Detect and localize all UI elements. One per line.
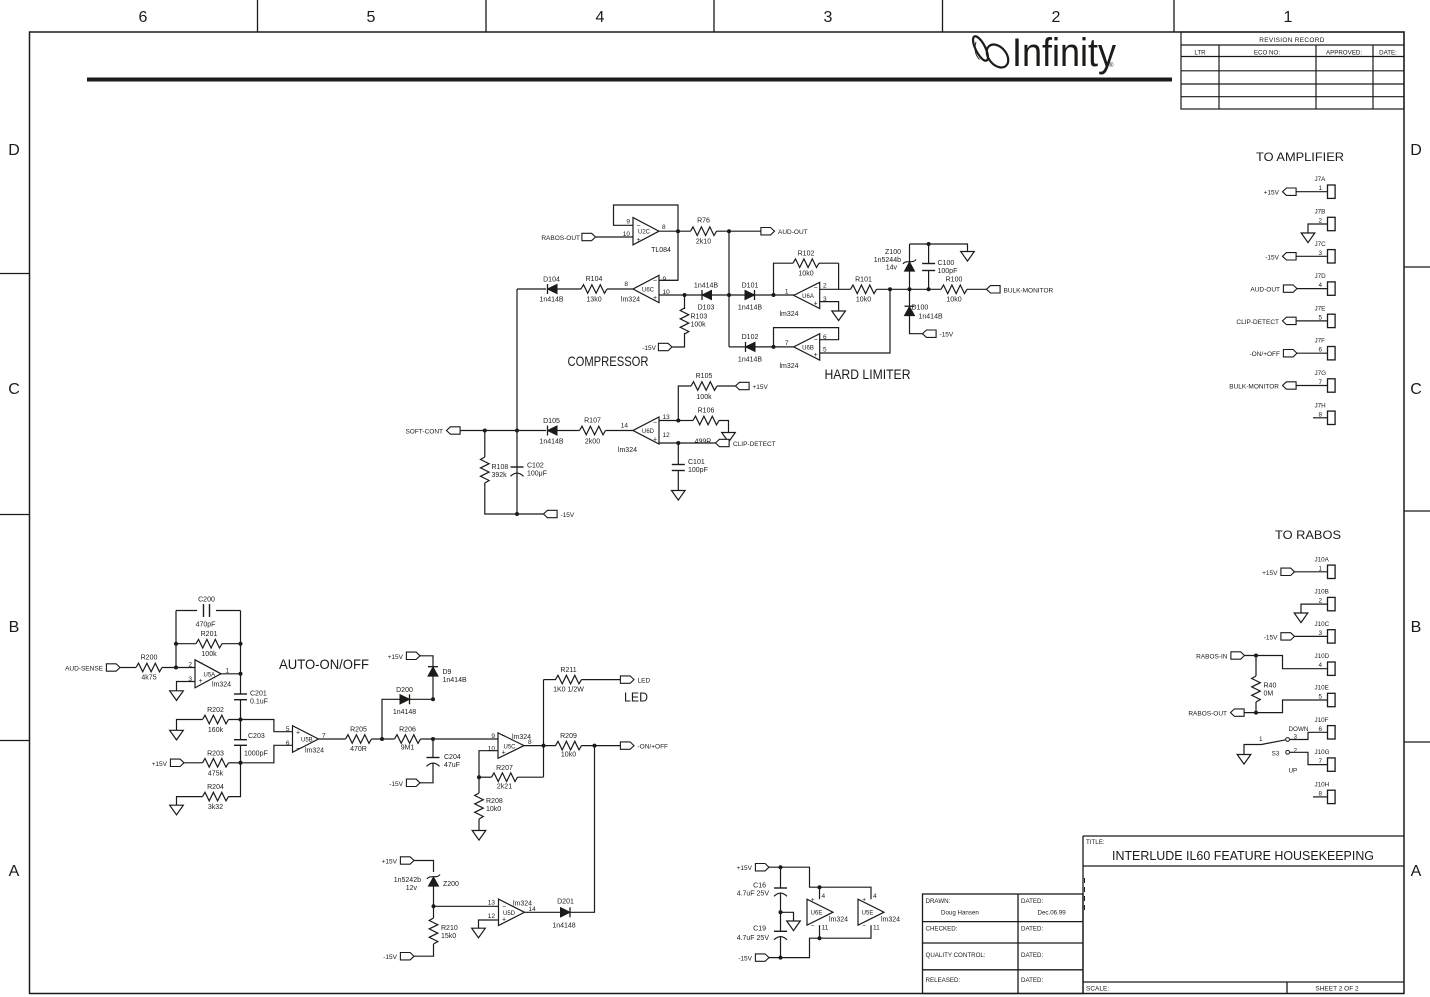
wire R211 to LED tag bbox=[582, 679, 621, 681]
svg-text:5: 5 bbox=[286, 726, 290, 733]
title block bbox=[1083, 836, 1404, 994]
wire J7C pin 3 bbox=[1296, 255, 1328, 257]
svg-text:R201: R201 bbox=[201, 631, 218, 638]
svg-text:1000pF: 1000pF bbox=[244, 751, 268, 758]
svg-text:2: 2 bbox=[1294, 748, 1298, 755]
svg-text:D105: D105 bbox=[543, 418, 560, 425]
resistor R200 bbox=[136, 663, 162, 672]
svg-text:100pF: 100pF bbox=[688, 467, 708, 474]
svg-text:470R: 470R bbox=[350, 746, 367, 753]
wire J10C pin 3 bbox=[1295, 635, 1328, 637]
resistor R203 bbox=[203, 759, 229, 768]
zener Z100 bbox=[909, 244, 911, 262]
connector J7B bbox=[1328, 217, 1336, 230]
net tag -15V at R103 bbox=[658, 343, 672, 350]
svg-text:+: + bbox=[502, 749, 506, 756]
resistor R101 bbox=[851, 285, 877, 294]
svg-text:DATED:: DATED: bbox=[1021, 926, 1044, 933]
ground at R204 bbox=[170, 805, 184, 815]
junction left rail / soft-cont bbox=[515, 429, 519, 433]
wire SOFT-CONT to D105 bbox=[460, 430, 546, 432]
svg-text:R202: R202 bbox=[207, 707, 224, 714]
svg-text:100k: 100k bbox=[201, 651, 217, 658]
wire J7G pin 7 bbox=[1296, 385, 1328, 387]
svg-text:DRAWN:: DRAWN: bbox=[926, 898, 951, 905]
switch S3 arm bbox=[1262, 740, 1286, 745]
svg-text:J7H: J7H bbox=[1315, 402, 1327, 409]
svg-text:A: A bbox=[9, 863, 20, 880]
wire J10F pin 6 to switch contact 3 bbox=[1290, 732, 1328, 739]
svg-text:−: − bbox=[502, 733, 506, 740]
net tag -ON/+OFF at J7F bbox=[1283, 350, 1297, 357]
wire D103 to D101 bbox=[712, 294, 746, 296]
svg-text:J7D: J7D bbox=[1315, 273, 1327, 280]
switch S3 contact 3 (DOWN) bbox=[1286, 738, 1290, 742]
svg-text:U6A: U6A bbox=[802, 294, 814, 300]
wire U2C node down to U6C pin 9 bbox=[659, 231, 678, 280]
svg-text:4: 4 bbox=[822, 893, 826, 900]
svg-text:U6D: U6D bbox=[642, 429, 655, 435]
svg-text:HARD LIMITER: HARD LIMITER bbox=[825, 366, 911, 382]
svg-text:J10G: J10G bbox=[1315, 749, 1330, 756]
wire pin13 node to R106 bbox=[678, 420, 693, 422]
capacitor C102 bbox=[511, 466, 524, 468]
wire U5A pin 3 to ground bbox=[177, 682, 196, 691]
svg-text:8: 8 bbox=[662, 224, 666, 231]
svg-text:COMPRESSOR: COMPRESSOR bbox=[568, 353, 649, 369]
svg-text:R76: R76 bbox=[697, 218, 710, 225]
svg-text:DOWN: DOWN bbox=[1289, 726, 1309, 733]
svg-text:5: 5 bbox=[823, 347, 827, 354]
net tag +15V at C16 bbox=[755, 864, 769, 871]
svg-text:+: + bbox=[637, 237, 641, 244]
wire D102 to U6B output bbox=[755, 346, 794, 348]
capacitor C19 bbox=[774, 930, 787, 932]
svg-text:R101: R101 bbox=[855, 277, 872, 284]
net tag LED bbox=[620, 676, 634, 683]
svg-text:7: 7 bbox=[785, 340, 789, 347]
svg-text:0.1uF: 0.1uF bbox=[250, 699, 268, 706]
junction R103 takeoff bbox=[683, 293, 687, 297]
net tag -15V at C19 bbox=[755, 954, 769, 961]
wire R101 to clamp node bbox=[877, 288, 942, 290]
svg-text:4: 4 bbox=[596, 9, 605, 26]
svg-text:Z100: Z100 bbox=[885, 249, 901, 256]
svg-text:R200: R200 bbox=[141, 655, 158, 662]
wire U5A output bbox=[221, 673, 241, 675]
diode D200 bbox=[400, 695, 410, 704]
svg-text:9: 9 bbox=[663, 276, 667, 283]
svg-text:J7E: J7E bbox=[1315, 305, 1326, 312]
ground at zener rail bbox=[961, 252, 975, 262]
capacitor C101 bbox=[677, 443, 679, 465]
wire +15V to Z200 bbox=[414, 861, 434, 873]
connector J10F bbox=[1328, 726, 1336, 739]
svg-text:-15V: -15V bbox=[383, 954, 397, 961]
connector J10D bbox=[1328, 662, 1336, 675]
svg-text:12v: 12v bbox=[406, 885, 418, 892]
svg-text:47uF: 47uF bbox=[444, 762, 460, 769]
svg-text:R106: R106 bbox=[698, 408, 715, 415]
ground at bypass midpoint bbox=[787, 921, 801, 931]
svg-text:2: 2 bbox=[823, 283, 827, 290]
svg-text:C19: C19 bbox=[753, 926, 766, 933]
svg-text:+: + bbox=[862, 897, 866, 904]
op-amp U6C bbox=[633, 275, 659, 302]
ground at J10B bbox=[1294, 613, 1308, 623]
svg-text:®: ® bbox=[1109, 62, 1114, 69]
svg-text:1n414B: 1n414B bbox=[443, 677, 467, 684]
svg-text:lm324: lm324 bbox=[779, 363, 798, 370]
junction at limiter vertical bbox=[727, 293, 731, 297]
net tag SOFT-CONT bbox=[447, 427, 461, 434]
svg-text:3: 3 bbox=[1294, 734, 1298, 741]
svg-text:1n414B: 1n414B bbox=[539, 439, 563, 446]
svg-text:100pF: 100pF bbox=[938, 268, 958, 275]
svg-text:0M: 0M bbox=[1264, 691, 1274, 698]
svg-text:10: 10 bbox=[488, 746, 496, 753]
wire U5C output bbox=[524, 745, 556, 747]
junction C101 takeoff bbox=[676, 441, 680, 445]
svg-text:AUD-OUT: AUD-OUT bbox=[778, 229, 808, 236]
svg-text:2k00: 2k00 bbox=[585, 439, 600, 446]
svg-text:TO AMPLIFIER: TO AMPLIFIER bbox=[1256, 152, 1344, 164]
wire R100 to BULK-MONITOR bbox=[967, 288, 987, 290]
svg-text:−: − bbox=[653, 420, 657, 427]
connector J7E bbox=[1328, 314, 1336, 327]
svg-text:11: 11 bbox=[873, 925, 880, 932]
svg-text:13k0: 13k0 bbox=[586, 297, 601, 304]
diode D103 bbox=[702, 290, 712, 299]
ground at R106 bbox=[722, 433, 736, 443]
svg-text:RABOS-IN: RABOS-IN bbox=[1196, 654, 1228, 661]
svg-text:DATE:: DATE: bbox=[1379, 50, 1397, 57]
wire U6A pin 2 to R101 bbox=[820, 288, 851, 290]
junction R40 top bbox=[1254, 654, 1258, 658]
svg-text:B: B bbox=[1411, 619, 1422, 636]
svg-text:Z200: Z200 bbox=[443, 881, 459, 888]
svg-text:+: + bbox=[811, 897, 815, 904]
wire R202 row to U5B pin 5 bbox=[229, 720, 293, 732]
svg-text:Doug Hansen: Doug Hansen bbox=[941, 910, 979, 917]
svg-text:D103: D103 bbox=[698, 305, 715, 312]
wire R207 row bbox=[479, 776, 492, 778]
svg-text:lm324: lm324 bbox=[779, 311, 798, 318]
wire J7D pin 4 bbox=[1297, 288, 1328, 290]
wire RABOS-IN to J10D pin 4 bbox=[1245, 656, 1328, 669]
resistor R208 bbox=[478, 777, 480, 793]
wire R203 to node bbox=[229, 762, 241, 764]
svg-text:1: 1 bbox=[1284, 9, 1293, 26]
junction U6E pin 11 bbox=[818, 936, 822, 940]
junction R208 node bbox=[477, 775, 481, 779]
svg-text:Infinity: Infinity bbox=[1012, 31, 1116, 75]
junction zener node bbox=[908, 287, 912, 291]
svg-text:6: 6 bbox=[139, 9, 148, 26]
svg-text:D104: D104 bbox=[543, 277, 560, 284]
wire U2C output to AUD-OUT bbox=[659, 230, 690, 232]
svg-text:RABOS-OUT: RABOS-OUT bbox=[1188, 711, 1227, 718]
svg-text:C204: C204 bbox=[444, 754, 461, 761]
svg-text:U5B: U5B bbox=[301, 738, 313, 744]
svg-text:J7G: J7G bbox=[1315, 370, 1327, 377]
resistor R105 bbox=[691, 382, 717, 391]
svg-text:lm324: lm324 bbox=[618, 447, 637, 454]
revision record table bbox=[1181, 32, 1404, 109]
net tag -15V at J10C bbox=[1281, 633, 1295, 640]
ground at C101 bbox=[672, 491, 686, 501]
junction D200 takeoff bbox=[380, 737, 384, 741]
svg-text:1n4148: 1n4148 bbox=[552, 923, 575, 930]
title block revision dashes bbox=[1084, 878, 1086, 910]
wire +15V to R203 bbox=[184, 762, 203, 764]
svg-text:D: D bbox=[1410, 142, 1422, 159]
svg-text:D: D bbox=[8, 142, 20, 159]
svg-text:LED: LED bbox=[638, 678, 651, 685]
wire J7H pin 8 stub bbox=[1313, 417, 1328, 419]
zener Z200 bbox=[429, 877, 439, 886]
svg-text:9: 9 bbox=[626, 219, 630, 226]
net tag -15V at J7C bbox=[1283, 253, 1297, 260]
junction C19 bottom bbox=[779, 956, 783, 960]
resistor R103 bbox=[684, 295, 686, 309]
junction D200 at main vertical bbox=[431, 697, 435, 701]
svg-text:9M1: 9M1 bbox=[401, 745, 415, 752]
svg-text:DATED:: DATED: bbox=[1021, 898, 1044, 905]
svg-text:LED: LED bbox=[624, 691, 648, 705]
diode D102 bbox=[746, 342, 756, 351]
junction C100 bottom bbox=[927, 287, 931, 291]
svg-text:C: C bbox=[1410, 381, 1422, 398]
wire AUD-OUT node down to limiter diodes bbox=[728, 231, 730, 347]
svg-text:J10B: J10B bbox=[1315, 589, 1329, 596]
svg-text:12: 12 bbox=[488, 913, 496, 920]
svg-text:U5A: U5A bbox=[204, 673, 216, 679]
wire R105 to +15V bbox=[717, 385, 736, 387]
svg-text:lm324: lm324 bbox=[212, 682, 231, 689]
resistor R104 bbox=[581, 285, 607, 294]
connector J10B bbox=[1328, 597, 1336, 610]
junction R108 takeoff bbox=[483, 429, 487, 433]
svg-text:B: B bbox=[9, 619, 20, 636]
junction U5A feedback input bbox=[174, 666, 178, 670]
connector J7H bbox=[1328, 411, 1336, 424]
connector J10C bbox=[1328, 630, 1336, 643]
junction U6E pin 4 bbox=[818, 885, 822, 889]
wire RABOS-OUT to U2C pin 10 bbox=[596, 236, 634, 238]
svg-text:-15V: -15V bbox=[642, 345, 656, 352]
svg-text:1n414B: 1n414B bbox=[694, 283, 718, 290]
svg-text:9: 9 bbox=[491, 733, 495, 740]
svg-text:C16: C16 bbox=[753, 883, 766, 890]
wire node to U5D pin 13 bbox=[434, 905, 499, 907]
wire D200 branch bbox=[382, 699, 400, 739]
svg-text:8: 8 bbox=[624, 281, 628, 288]
svg-text:U6E: U6E bbox=[811, 911, 823, 917]
resistor R106 bbox=[693, 416, 719, 425]
svg-text:6: 6 bbox=[286, 740, 290, 747]
svg-text:R206: R206 bbox=[399, 727, 416, 734]
svg-text:2: 2 bbox=[1052, 9, 1061, 26]
svg-text:SHEET 2 OF 2: SHEET 2 OF 2 bbox=[1315, 986, 1359, 993]
svg-text:R107: R107 bbox=[584, 418, 601, 425]
resistor R100 bbox=[941, 285, 967, 294]
svg-text:−: − bbox=[637, 223, 641, 230]
svg-text:TL084: TL084 bbox=[651, 247, 671, 254]
op-amp U6B bbox=[794, 334, 820, 360]
svg-text:4.7uF 25V: 4.7uF 25V bbox=[737, 935, 770, 942]
ground at S3 bbox=[1237, 755, 1251, 765]
svg-text:100μF: 100μF bbox=[527, 471, 547, 478]
svg-text:-15V: -15V bbox=[940, 332, 954, 339]
svg-text:10k0: 10k0 bbox=[946, 297, 961, 304]
svg-text:1n414B: 1n414B bbox=[738, 357, 762, 364]
capacitor C200 bbox=[203, 604, 205, 617]
net tag -15V at R210 bbox=[400, 953, 414, 960]
svg-text:R103: R103 bbox=[691, 314, 708, 321]
svg-text:+: + bbox=[502, 917, 506, 924]
svg-text:1K0 1/2W: 1K0 1/2W bbox=[553, 687, 584, 694]
wire R202 to ground bbox=[177, 720, 203, 731]
svg-text:−: − bbox=[811, 923, 815, 930]
svg-text:R104: R104 bbox=[586, 276, 603, 283]
Infinity logo swirl bbox=[970, 34, 1013, 71]
svg-text:+15V: +15V bbox=[753, 384, 769, 391]
connector J7A bbox=[1328, 185, 1336, 198]
diode D201 bbox=[561, 908, 571, 917]
svg-text:2: 2 bbox=[188, 662, 192, 669]
wire RABOS-OUT to J10E pin 5 bbox=[1244, 700, 1328, 713]
svg-text:J7C: J7C bbox=[1315, 241, 1327, 248]
diode D105 bbox=[548, 426, 558, 435]
svg-text:CLIP-DETECT: CLIP-DETECT bbox=[1236, 319, 1279, 326]
svg-text:AUD-OUT: AUD-OUT bbox=[1250, 287, 1280, 294]
svg-text:+15V: +15V bbox=[1264, 190, 1280, 197]
ground at U6A pin 3 bbox=[832, 311, 846, 321]
ground at R202 bbox=[170, 730, 184, 740]
junction C102 bottom bbox=[515, 512, 519, 516]
svg-text:R100: R100 bbox=[946, 277, 963, 284]
svg-text:J7B: J7B bbox=[1315, 209, 1326, 216]
resistor R76 bbox=[691, 227, 717, 236]
capacitor C16 bbox=[780, 867, 782, 888]
net tag RABOS-OUT bbox=[582, 233, 596, 240]
svg-text:RABOS-OUT: RABOS-OUT bbox=[541, 235, 580, 242]
op-amp U5E bbox=[858, 899, 884, 925]
wire U6C pin 10 to D103 bbox=[659, 294, 702, 296]
resistor R102 bbox=[793, 259, 819, 268]
ground at U5D pin 12 bbox=[472, 928, 486, 938]
svg-text:CLIP-DETECT: CLIP-DETECT bbox=[733, 441, 776, 448]
diode D101 bbox=[745, 290, 755, 299]
op-amp U5A bbox=[195, 660, 221, 688]
svg-text:QUALITY CONTROL:: QUALITY CONTROL: bbox=[926, 952, 986, 959]
net tag RABOS-OUT bbox=[1231, 709, 1245, 716]
svg-text:J10C: J10C bbox=[1315, 621, 1330, 628]
wire U6D pin 12 to CLIP-DETECT bbox=[659, 442, 716, 444]
svg-text:100k: 100k bbox=[696, 394, 712, 401]
resistor R108 bbox=[484, 431, 486, 458]
net tag CLIP-DETECT at J7E bbox=[1283, 317, 1297, 324]
svg-text:14v: 14v bbox=[886, 265, 898, 272]
svg-text:−: − bbox=[814, 337, 818, 344]
resistor R202 bbox=[203, 715, 229, 724]
svg-text:4.7uF 25V: 4.7uF 25V bbox=[737, 891, 770, 898]
svg-text:−: − bbox=[296, 746, 300, 753]
junction AUD-OUT branch bbox=[727, 229, 731, 233]
wire S3 common to ground bbox=[1244, 745, 1262, 755]
svg-text:R209: R209 bbox=[560, 733, 577, 740]
svg-text:J10A: J10A bbox=[1315, 556, 1330, 563]
svg-text:R105: R105 bbox=[696, 373, 713, 380]
svg-text:Dec.06.99: Dec.06.99 bbox=[1038, 910, 1067, 917]
junction R40 bottom bbox=[1254, 711, 1258, 715]
net tag AUD-OUT at J7D bbox=[1283, 285, 1297, 292]
capacitor C201 bbox=[234, 693, 247, 695]
op-amp U6E bbox=[807, 899, 833, 925]
wire R205 to R206 bbox=[372, 738, 395, 740]
wire R102 to feedback vertical bbox=[819, 262, 839, 264]
op-amp U2C bbox=[633, 218, 659, 245]
svg-text:ECO NO:: ECO NO: bbox=[1254, 50, 1280, 57]
net tag +15V at Z200 bbox=[400, 857, 414, 864]
junction R201 left bbox=[174, 642, 178, 646]
net tag +15V at R105 bbox=[736, 382, 750, 389]
resistor R205 bbox=[346, 735, 372, 744]
svg-text:D100: D100 bbox=[912, 305, 929, 312]
net tag BULK-MONITOR bbox=[987, 286, 1001, 293]
net tag +15V at J10A bbox=[1281, 568, 1295, 575]
svg-text:U6B: U6B bbox=[802, 346, 814, 352]
wire J7A pin 1 bbox=[1296, 191, 1328, 193]
op-amp U5D bbox=[499, 899, 525, 926]
svg-text:SCALE:: SCALE: bbox=[1086, 986, 1109, 993]
wire U6A feedback vertical right bbox=[838, 263, 840, 289]
net tag BULK-MONITOR at J7G bbox=[1283, 382, 1297, 389]
svg-text:10k0: 10k0 bbox=[798, 271, 813, 278]
svg-text:2k21: 2k21 bbox=[497, 784, 512, 791]
resistor R211 bbox=[556, 675, 582, 684]
resistor R209 bbox=[556, 741, 582, 750]
svg-text:S3: S3 bbox=[1272, 751, 1280, 758]
wire R201 row bbox=[176, 643, 196, 645]
svg-text:475k: 475k bbox=[208, 770, 224, 777]
wire C203 to R203 row bbox=[240, 745, 242, 763]
wire +15V to D9 bbox=[420, 656, 433, 667]
op-amp U6D bbox=[633, 417, 659, 444]
svg-text:+15V: +15V bbox=[737, 865, 753, 872]
svg-text:DATED:: DATED: bbox=[1021, 977, 1044, 984]
wire U6B feedback loop bbox=[774, 328, 839, 347]
junction R201 right bbox=[239, 642, 243, 646]
svg-text:499R: 499R bbox=[695, 439, 712, 446]
svg-text:U2C: U2C bbox=[638, 230, 651, 236]
svg-text:C200: C200 bbox=[198, 597, 215, 604]
svg-text:4k75: 4k75 bbox=[141, 675, 156, 682]
svg-text:+15V: +15V bbox=[388, 654, 404, 661]
wire U2C feedback loop bbox=[614, 205, 679, 231]
wire J7F pin 6 bbox=[1297, 352, 1328, 354]
svg-text:3k32: 3k32 bbox=[208, 804, 223, 811]
wire J7E pin 5 bbox=[1296, 320, 1328, 322]
wire R211/R207 vertical bbox=[543, 680, 545, 778]
svg-text:+15V: +15V bbox=[382, 859, 398, 866]
svg-text:-15V: -15V bbox=[1264, 634, 1278, 641]
svg-text:10: 10 bbox=[623, 231, 631, 238]
net tag RABOS-IN bbox=[1231, 652, 1245, 659]
svg-text:J10E: J10E bbox=[1315, 685, 1329, 692]
wire D104 to R104 bbox=[557, 288, 581, 290]
